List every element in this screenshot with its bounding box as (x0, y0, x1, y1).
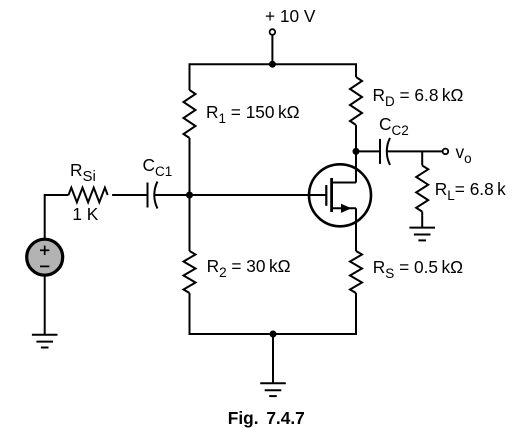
+10V supply terminal (270, 29, 276, 35)
wire supply stub (271, 35, 273, 64)
wire drain node to CC2 (356, 150, 380, 152)
capacitor CC1 (148, 182, 158, 209)
resistor R1 (184, 90, 196, 138)
wire RL to ground (421, 212, 423, 228)
capacitor CC2 (380, 138, 390, 165)
wire bottom rail with branch risers (190, 293, 357, 334)
wire CC2 to vo (387, 150, 443, 152)
label RL value (435, 181, 506, 198)
source V1 (27, 239, 63, 275)
resistor RS (350, 251, 362, 293)
resistor RSi (69, 188, 108, 203)
wire gate lead (190, 194, 327, 196)
terminal vo (443, 149, 449, 155)
wire R1 to R2 through gate node (189, 138, 191, 251)
ground output (409, 228, 435, 241)
resistor RD (350, 77, 362, 125)
label R1 value (206, 104, 300, 121)
label figure caption (228, 410, 305, 427)
node supply junction (269, 61, 276, 68)
node gate junction (186, 192, 193, 199)
wire CC1 to gate node (154, 194, 190, 196)
label RS value (373, 259, 463, 276)
wire top rail with branch drops (190, 64, 357, 90)
node drain junction (353, 148, 360, 155)
wire source lead down (355, 208, 357, 251)
transistor Q1 MOSFET (309, 164, 371, 226)
wire ground stub center (272, 334, 274, 383)
wire RSi to CC1 (112, 194, 147, 196)
wire RD to drain (355, 125, 357, 183)
label RD value (373, 87, 464, 104)
label CC2 (379, 116, 409, 133)
label R2 value (207, 258, 291, 275)
resistor R2 (184, 251, 196, 293)
label +10V (265, 8, 315, 25)
ground input (32, 335, 58, 348)
node bottom junction (270, 331, 277, 338)
wire input left vertical (45, 195, 69, 239)
wire source to ground (44, 275, 46, 335)
label RSi value (72, 206, 98, 223)
ground center (260, 383, 286, 396)
label CC1 (143, 157, 173, 174)
label vo (456, 144, 472, 161)
label RSi (70, 162, 96, 179)
wire RL tap (421, 151, 423, 165)
resistor RL (416, 166, 428, 212)
